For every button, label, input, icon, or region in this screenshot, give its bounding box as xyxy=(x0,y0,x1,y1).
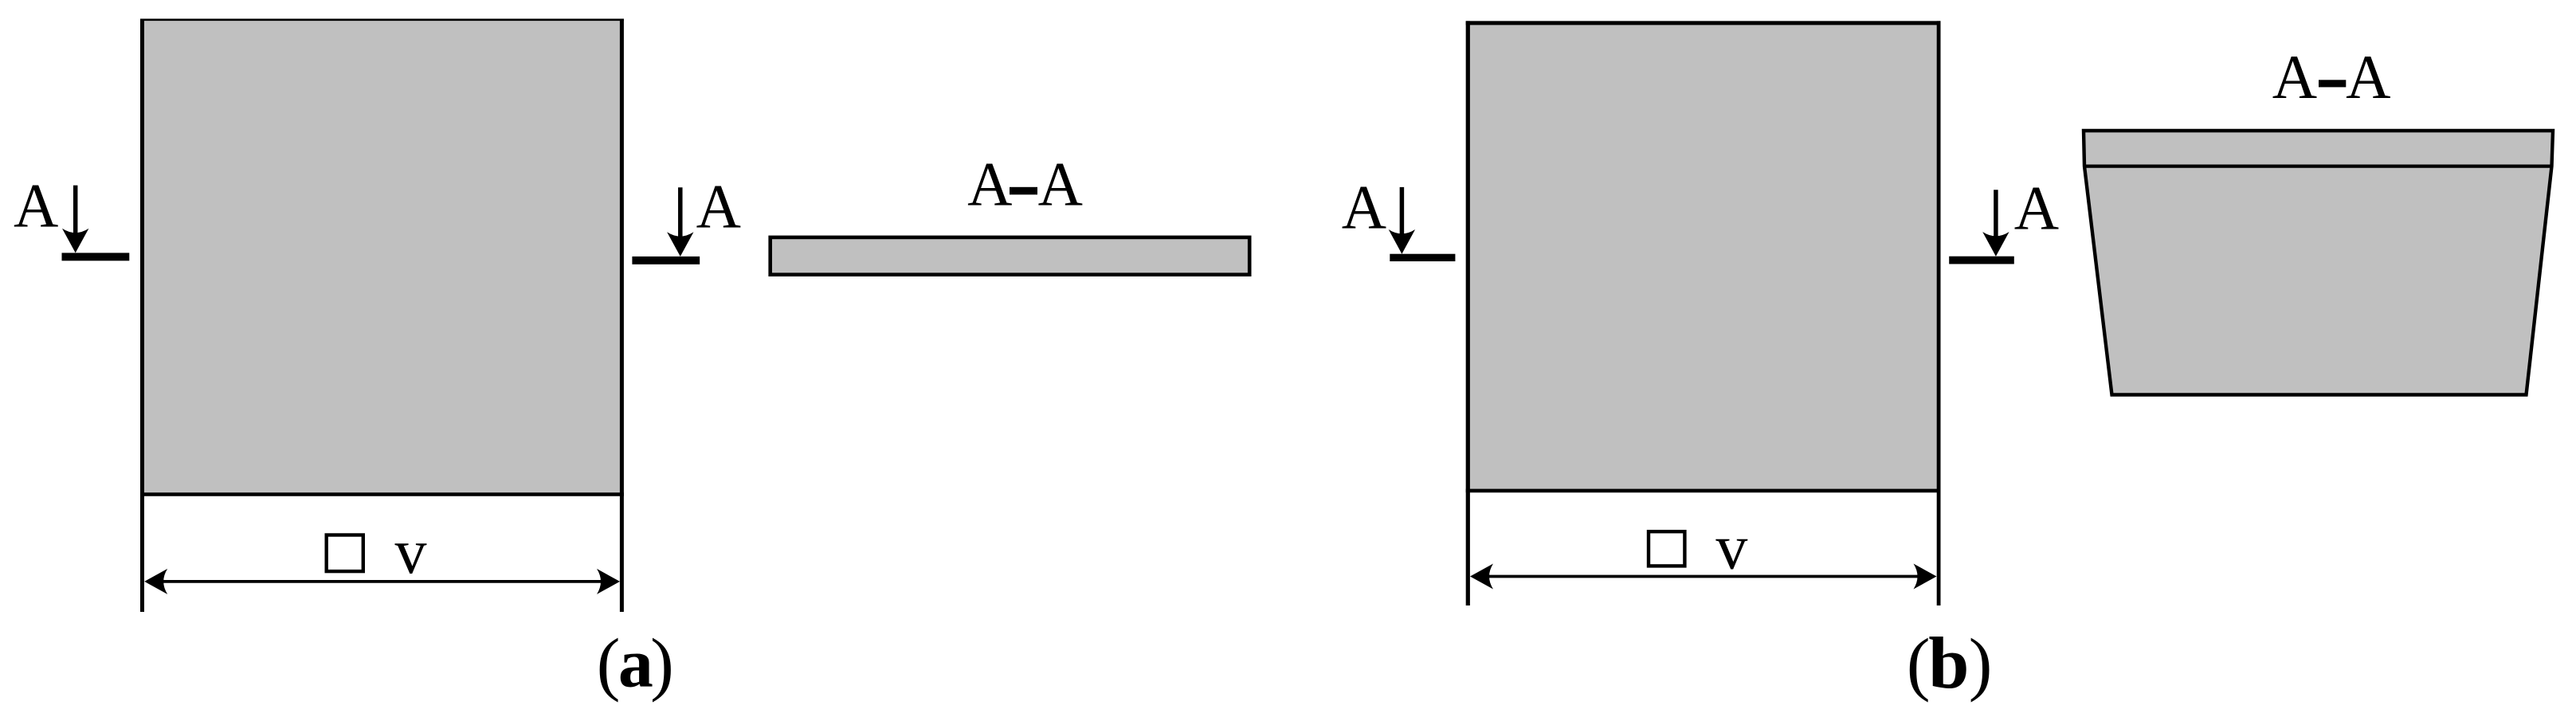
svg-text:A: A xyxy=(2272,42,2317,112)
section arrow (right of square a) xyxy=(678,187,683,238)
small square symbol (b) xyxy=(1649,531,1684,566)
svg-text:): ) xyxy=(650,625,674,703)
section view trapezoid (b) xyxy=(2084,131,2553,395)
square (b) bottom edge xyxy=(1466,489,1941,493)
svg-text:A: A xyxy=(2346,42,2390,112)
dimension line (a) xyxy=(163,580,601,583)
small square symbol (a) xyxy=(327,535,363,572)
section view divider line (b) xyxy=(2084,165,2552,168)
svg-text:v: v xyxy=(395,517,427,587)
section view flat plate (a) xyxy=(770,237,1249,275)
svg-text:): ) xyxy=(1969,625,1993,703)
svg-text:A: A xyxy=(2014,174,2059,243)
square (a) bottom edge xyxy=(140,492,624,496)
svg-text:b: b xyxy=(1928,622,1969,703)
square (b) right edge + extension line xyxy=(1937,21,1941,605)
square (b) left edge + extension line xyxy=(1466,21,1470,605)
svg-text:A: A xyxy=(967,149,1012,218)
section arrow (left of square b) xyxy=(1400,187,1405,236)
svg-text:A: A xyxy=(1038,149,1083,218)
svg-text:v: v xyxy=(1715,513,1747,583)
svg-text:A: A xyxy=(696,172,741,241)
svg-text:a: a xyxy=(618,625,653,703)
plan-view square (b) gray fill xyxy=(1466,21,1941,492)
svg-text:A: A xyxy=(1342,172,1386,241)
square (b) top edge xyxy=(1466,21,1941,25)
section cut bar (left of square a) xyxy=(62,253,130,261)
section cut bar (left of square b) xyxy=(1390,254,1455,261)
square (a) right edge + extension line xyxy=(620,19,624,613)
square (a) left edge + extension line xyxy=(140,19,144,613)
plan-view square (a) gray fill xyxy=(140,19,624,496)
section arrow (left of square a) xyxy=(73,186,78,235)
svg-text:(: ( xyxy=(597,625,621,703)
section arrow (right of square b) xyxy=(1994,190,1998,238)
section cut bar (right of square b) xyxy=(1949,257,2014,264)
dimension line (b) xyxy=(1488,575,1919,578)
section cut bar (right of square a) xyxy=(632,257,700,264)
svg-text:(: ( xyxy=(1907,625,1931,703)
square (a) top edge xyxy=(140,18,624,21)
svg-text:A: A xyxy=(14,171,58,241)
